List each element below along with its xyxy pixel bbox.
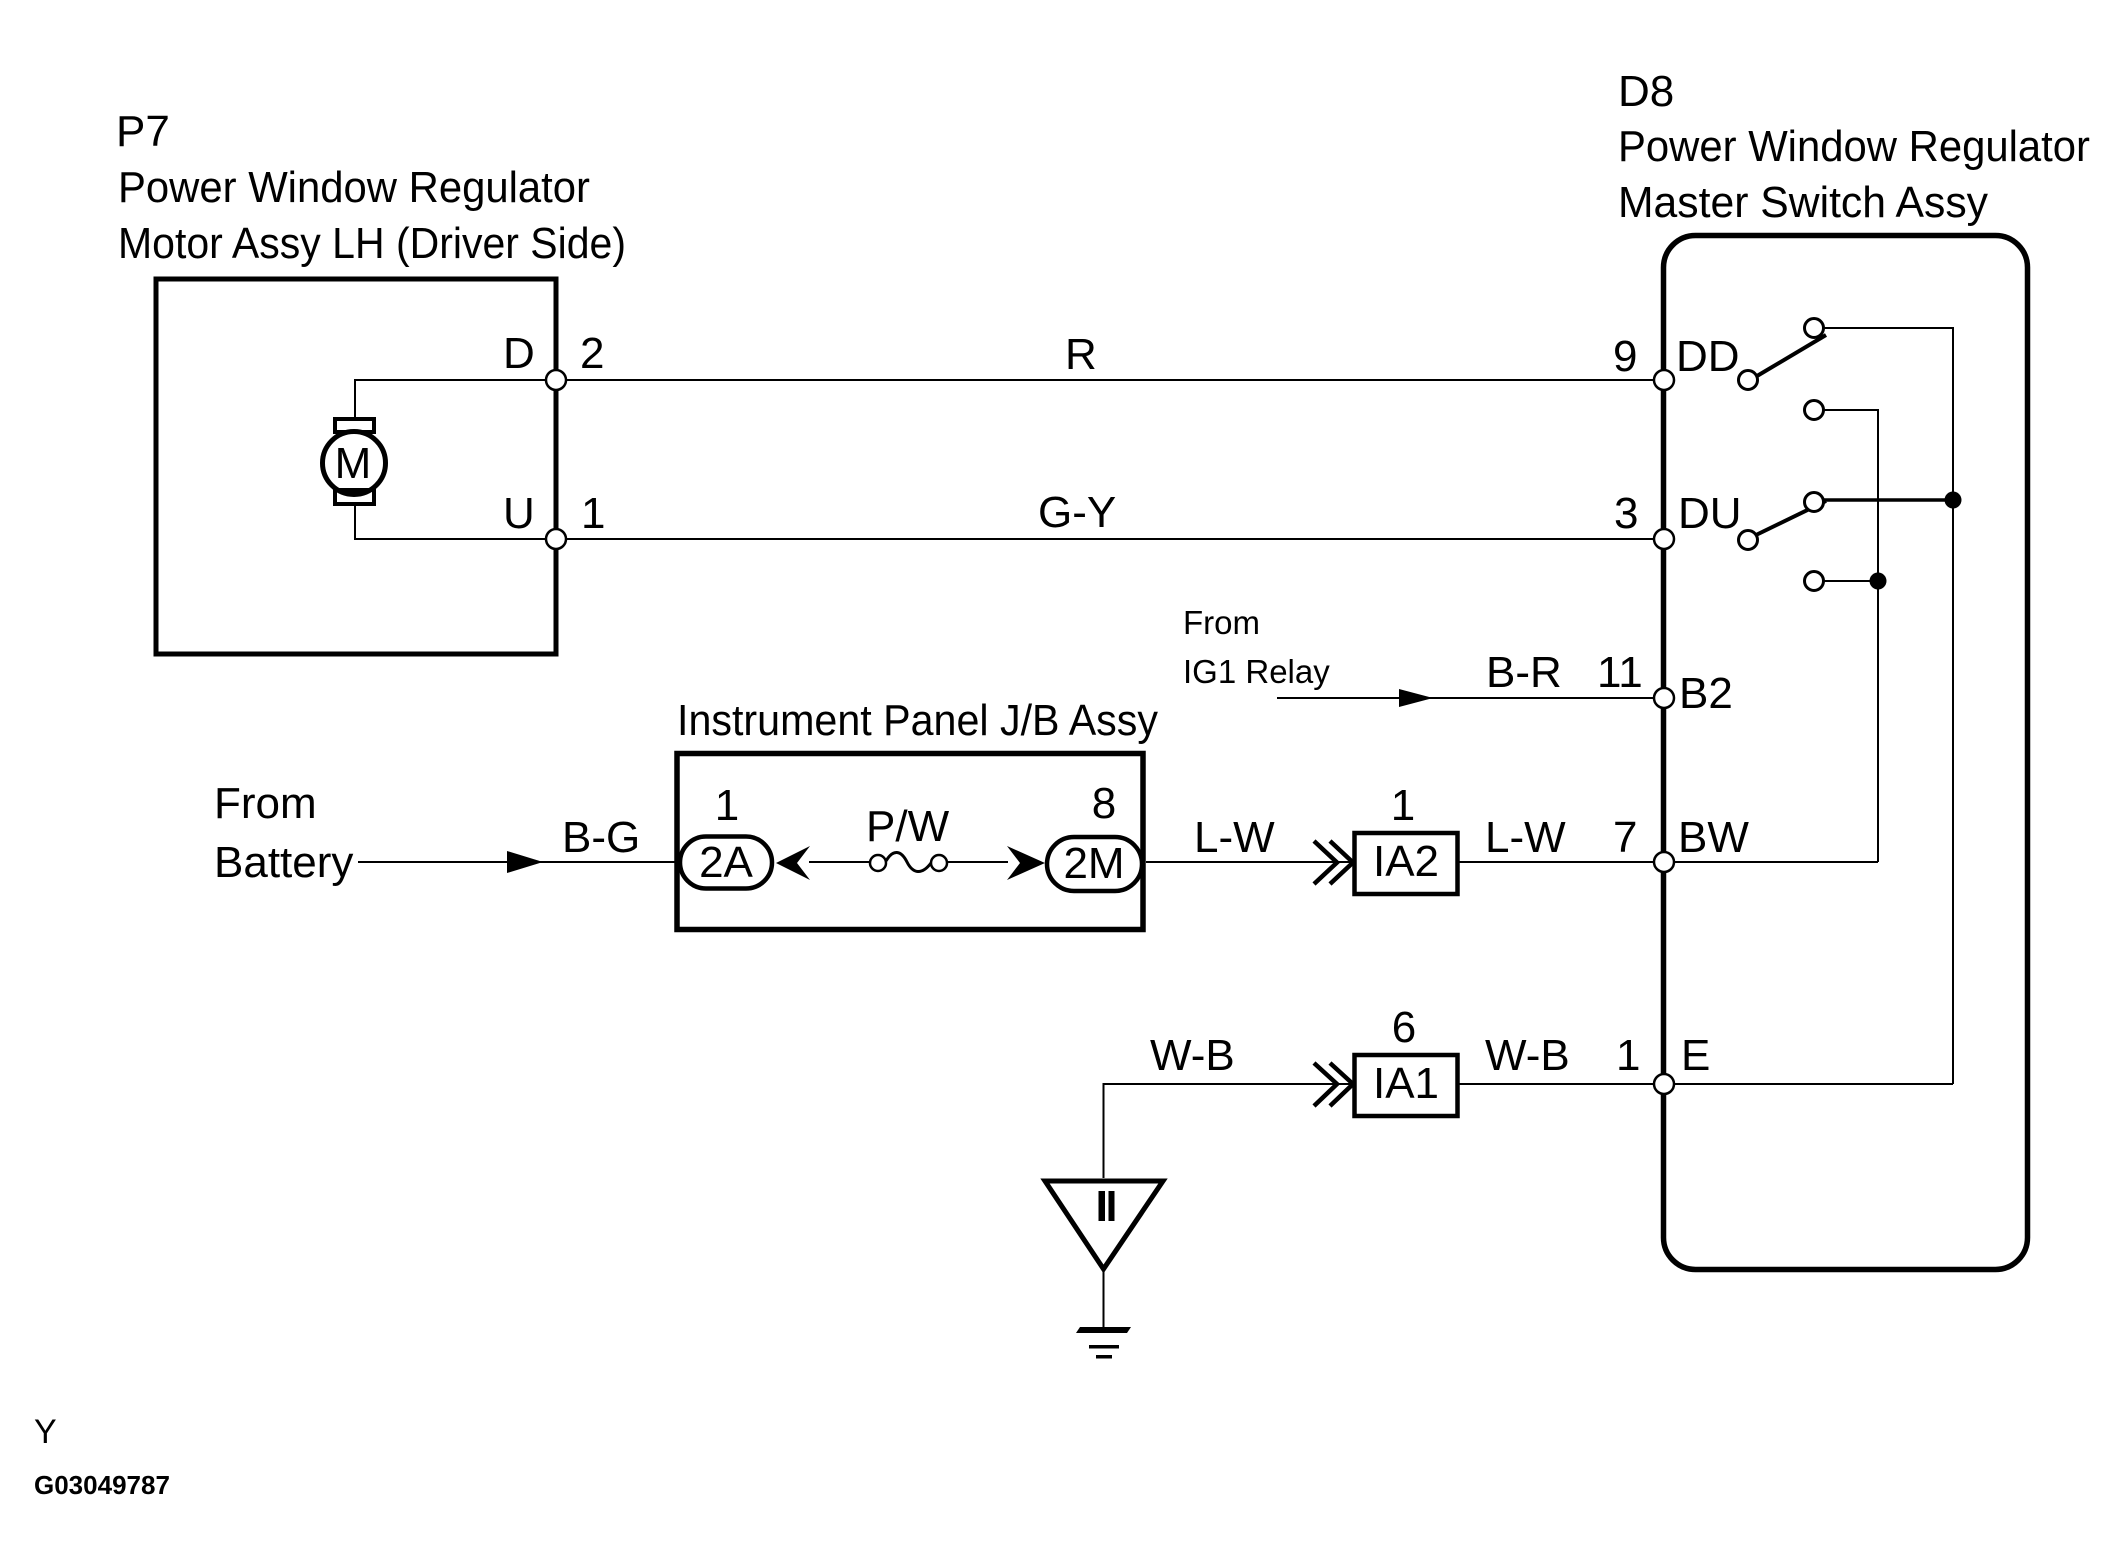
svg-text:DU: DU (1678, 489, 1742, 538)
wire fuse to 2M (947, 861, 1008, 863)
wire BW node to internal vertical (1664, 861, 1878, 863)
connector cavity 2M (1047, 837, 1142, 891)
junction connector IA2 (1355, 833, 1458, 894)
svg-text:1: 1 (1616, 1031, 1640, 1080)
node pin 1 (U) (546, 529, 566, 549)
wire triangle apex to ground (1103, 1269, 1105, 1327)
svg-text:BW: BW (1678, 813, 1749, 862)
master switch assy box D8 (1664, 236, 2028, 1270)
svg-text:P7: P7 (116, 107, 170, 156)
svg-text:Power Window Regulator: Power Window Regulator (1618, 122, 2090, 171)
node pin 3 (DU) (1654, 529, 1674, 549)
wire to fuse (809, 861, 870, 863)
junction dot on BW-side vertical (1870, 573, 1887, 590)
switch DD upper contact (1805, 319, 1824, 338)
svg-text:Battery: Battery (214, 838, 353, 887)
wire W-B (ground riser to IA1) (1104, 1084, 1355, 1178)
connector P7 label (116, 107, 626, 268)
node pin 1 (E) (1654, 1074, 1674, 1094)
svg-text:Y: Y (34, 1413, 57, 1451)
svg-text:M: M (335, 439, 372, 488)
junction connector IA1 (1355, 1055, 1458, 1116)
ground triangle II (1045, 1181, 1163, 1269)
svg-text:G-Y: G-Y (1038, 488, 1116, 537)
svg-text:DD: DD (1676, 332, 1740, 381)
wire DU contact to junction (thick) (1822, 498, 1953, 502)
svg-text:Master Switch Assy: Master Switch Assy (1618, 178, 1988, 227)
svg-text:2: 2 (580, 329, 604, 378)
node pin 2 (D) (546, 370, 566, 390)
wire motor lead U (internal) (355, 506, 556, 539)
wire B-G from battery (358, 861, 677, 863)
svg-text:E: E (1681, 1031, 1710, 1080)
svg-text:7: 7 (1613, 813, 1637, 862)
pin D 2 labels (503, 329, 604, 378)
connector D8 label (1618, 67, 2090, 227)
svg-text:IG1 Relay: IG1 Relay (1183, 653, 1330, 690)
wire from DD switch contact to E net (vertical) (1824, 328, 1953, 1084)
wire contact row4 to junction (1824, 580, 1878, 582)
svg-text:1: 1 (715, 781, 739, 830)
arrow into 2M (right pointing) (1007, 846, 1045, 880)
contact circle (row 2) (1805, 401, 1824, 420)
pin 3 DU labels (1614, 489, 1742, 538)
label From IG1 Relay (1183, 604, 1330, 690)
arrow on B-G wire (507, 851, 543, 873)
svg-text:IA2: IA2 (1373, 837, 1439, 886)
arrow on B-R wire (1399, 689, 1433, 707)
svg-text:IA1: IA1 (1373, 1059, 1439, 1108)
wire W-B (IA1 to E) (1457, 1083, 1664, 1085)
svg-text:1: 1 (581, 489, 605, 538)
switch DD pivot contact (1739, 371, 1758, 390)
node pin 11 (B2) (1654, 688, 1674, 708)
svg-text:L-W: L-W (1485, 813, 1566, 862)
svg-text:2M: 2M (1063, 839, 1124, 888)
svg-text:D8: D8 (1618, 67, 1674, 116)
motor assy box P7 (156, 279, 556, 654)
switch DD blade (1757, 335, 1826, 376)
wire G-Y (pin 1 to pin 3) (556, 538, 1664, 540)
wire motor lead D (internal) (355, 380, 556, 417)
svg-text:Motor Assy LH (Driver Side): Motor Assy LH (Driver Side) (118, 219, 626, 268)
connector cavity 2A (680, 837, 772, 889)
svg-text:L-W: L-W (1194, 813, 1275, 862)
wire R (pin 2 to pin 9) (556, 379, 1664, 381)
instrument panel J/B box (677, 754, 1143, 930)
wire B-R from IG1 relay (1277, 697, 1664, 699)
motor M1 (323, 419, 386, 504)
svg-text:D: D (503, 329, 535, 378)
svg-text:W-B: W-B (1485, 1031, 1570, 1080)
svg-text:6: 6 (1392, 1003, 1416, 1052)
svg-text:1: 1 (1391, 781, 1415, 830)
node pin 7 (BW) (1654, 852, 1674, 872)
switch DU pivot contact (1739, 531, 1758, 550)
svg-text:2A: 2A (699, 838, 753, 887)
node pin 9 (DD) (1654, 370, 1674, 390)
svg-text:B-R: B-R (1486, 648, 1562, 697)
wire L-W (IA2 to BW) (1457, 861, 1664, 863)
svg-text:8: 8 (1092, 779, 1116, 828)
svg-text:B2: B2 (1679, 669, 1733, 718)
arrow into 2A (left pointing) (776, 846, 810, 880)
svg-text:11: 11 (1597, 648, 1643, 697)
junction dot on E-side vertical (1945, 492, 1962, 509)
switch DU blade (1756, 501, 1826, 535)
pin 9 DD labels (1613, 332, 1740, 381)
svg-text:Instrument Panel J/B Assy: Instrument Panel J/B Assy (677, 696, 1158, 745)
svg-text:From: From (1183, 604, 1260, 641)
contact circle (row 4) (1805, 572, 1824, 591)
svg-text:R: R (1065, 330, 1097, 379)
inline connector chevrons IA1 (1314, 1063, 1353, 1106)
svg-text:9: 9 (1613, 332, 1637, 381)
wire L-W (2M to IA2) (1146, 861, 1354, 863)
pin U 1 labels (503, 489, 605, 538)
svg-text:Power Window Regulator: Power Window Regulator (118, 163, 590, 212)
ground symbol (1076, 1327, 1131, 1359)
label From Battery (214, 779, 353, 887)
switch DU upper contact (1805, 493, 1824, 512)
svg-text:G03049787: G03049787 (34, 1470, 170, 1500)
svg-text:P/W: P/W (866, 802, 950, 851)
svg-text:3: 3 (1614, 489, 1638, 538)
wire from second contact down to BW net (1824, 410, 1878, 862)
wire E node to internal vertical (1664, 1083, 1953, 1085)
svg-text:From: From (214, 779, 317, 828)
svg-text:B-G: B-G (562, 813, 640, 862)
fuse P/W (870, 852, 947, 871)
inline connector chevrons IA2 (1314, 841, 1353, 884)
svg-text:W-B: W-B (1150, 1031, 1235, 1080)
svg-text:U: U (503, 489, 535, 538)
